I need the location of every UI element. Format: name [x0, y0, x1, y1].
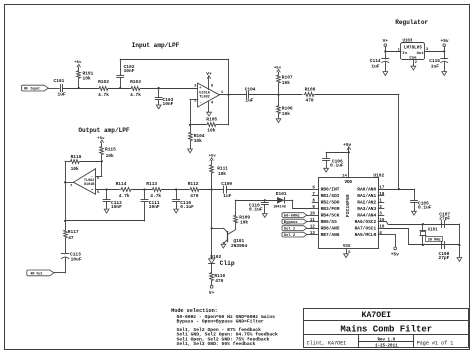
- svg-text:4.7k: 4.7k: [130, 92, 141, 98]
- svg-text:10k: 10k: [282, 80, 290, 86]
- svg-text:-: -: [200, 101, 202, 105]
- svg-text:15: 15: [379, 219, 384, 223]
- svg-text:10nF: 10nF: [124, 68, 135, 74]
- svg-text:LM78L05: LM78L05: [404, 45, 422, 50]
- svg-text:R107: R107: [282, 75, 293, 81]
- svg-text:Page #1 of 1: Page #1 of 1: [417, 341, 454, 347]
- svg-text:C115: C115: [429, 58, 440, 64]
- svg-text:10nF: 10nF: [149, 204, 160, 210]
- svg-text:VSS: VSS: [343, 245, 351, 249]
- svg-text:RB5/SS: RB5/SS: [321, 219, 338, 225]
- svg-text:Rev 1.0: Rev 1.0: [378, 338, 396, 342]
- svg-text:Bypass: Bypass: [284, 221, 298, 225]
- svg-text:1uF: 1uF: [371, 63, 379, 69]
- svg-text:X101: X101: [428, 228, 438, 232]
- svg-text:10k: 10k: [106, 153, 114, 159]
- svg-text:R113: R113: [146, 181, 157, 187]
- svg-text:1N4148: 1N4148: [273, 206, 286, 210]
- svg-text:U101B: U101B: [84, 183, 95, 187]
- svg-text:Mode selection:: Mode selection:: [171, 308, 218, 314]
- svg-text:4.7k: 4.7k: [119, 193, 130, 199]
- svg-text:10k: 10k: [83, 76, 91, 82]
- svg-text:+5v: +5v: [441, 38, 449, 44]
- svg-text:R114: R114: [116, 181, 127, 187]
- svg-text:C104: C104: [245, 86, 256, 92]
- svg-text:Bypass - Open=Bypass GND=Filte: Bypass - Open=Bypass GND=Filter: [177, 319, 264, 325]
- svg-text:PIC16F88: PIC16F88: [345, 194, 351, 217]
- svg-text:U103: U103: [403, 39, 413, 43]
- svg-text:RB0/INT: RB0/INT: [321, 187, 340, 193]
- svg-text:TL082: TL082: [199, 95, 210, 99]
- svg-text:+5v: +5v: [274, 66, 282, 70]
- svg-text:27pF: 27pF: [439, 215, 450, 221]
- svg-text:V+: V+: [209, 290, 215, 296]
- svg-text:+5v: +5v: [97, 137, 105, 141]
- svg-text:1uF: 1uF: [223, 193, 231, 199]
- svg-text:RF Input: RF Input: [24, 87, 40, 91]
- svg-text:Mains Comb Filter: Mains Comb Filter: [340, 325, 432, 335]
- svg-text:10uF: 10uF: [71, 256, 82, 262]
- svg-text:C101: C101: [54, 78, 65, 84]
- svg-text:RB4/SCK: RB4/SCK: [321, 213, 340, 219]
- svg-text:0.1uF: 0.1uF: [249, 207, 263, 213]
- svg-text:RA3/AN3: RA3/AN3: [357, 206, 376, 212]
- svg-text:R103: R103: [130, 79, 141, 85]
- svg-text:RA6/OSC2: RA6/OSC2: [355, 219, 377, 225]
- svg-text:0.1uF: 0.1uF: [180, 204, 194, 210]
- svg-text:RB7/AN6: RB7/AN6: [321, 232, 340, 238]
- svg-text:10k: 10k: [207, 127, 215, 133]
- svg-text:V+: V+: [383, 38, 389, 44]
- svg-text:RA5/MCLR: RA5/MCLR: [355, 232, 377, 238]
- svg-text:+5v: +5v: [391, 252, 399, 258]
- svg-text:R108: R108: [305, 87, 316, 93]
- svg-text:Output amp/LPF: Output amp/LPF: [78, 127, 130, 134]
- svg-text:12: 12: [310, 225, 315, 229]
- svg-text:R101: R101: [83, 70, 94, 76]
- svg-text:470: 470: [306, 98, 314, 104]
- svg-text:10nF: 10nF: [163, 101, 174, 107]
- svg-text:20 MHz: 20 MHz: [428, 238, 441, 242]
- svg-text:RA0/AN0: RA0/AN0: [357, 187, 376, 193]
- svg-text:C109: C109: [221, 181, 232, 187]
- svg-text:Regulator: Regulator: [395, 19, 428, 26]
- svg-text:1uF: 1uF: [431, 63, 439, 69]
- svg-text:Input amp/LPF: Input amp/LPF: [132, 42, 180, 49]
- svg-text:Clip: Clip: [220, 260, 235, 267]
- svg-text:10: 10: [310, 212, 315, 216]
- svg-text:50-60Hz: 50-60Hz: [284, 215, 300, 219]
- svg-text:RB3/PGM: RB3/PGM: [321, 206, 340, 212]
- svg-text:470: 470: [215, 278, 223, 284]
- svg-text:47: 47: [68, 235, 74, 241]
- svg-text:0.1uF: 0.1uF: [418, 205, 432, 211]
- svg-text:R105: R105: [206, 116, 217, 122]
- svg-text:2: 2: [415, 61, 417, 65]
- svg-text:10nF: 10nF: [111, 204, 122, 210]
- svg-text:C114: C114: [370, 58, 381, 64]
- svg-text:VDD: VDD: [345, 181, 353, 185]
- svg-text:RA2/AN2: RA2/AN2: [357, 200, 376, 206]
- svg-text:Sel 2: Sel 2: [284, 233, 296, 238]
- svg-text:In: In: [402, 52, 407, 56]
- svg-text:D101: D101: [276, 191, 287, 197]
- svg-text:R116: R116: [71, 154, 82, 160]
- svg-text:R110: R110: [214, 273, 225, 279]
- svg-text:11: 11: [310, 219, 315, 223]
- svg-text:470: 470: [190, 193, 198, 199]
- svg-text:R117: R117: [68, 229, 79, 235]
- svg-text:10k: 10k: [282, 111, 290, 117]
- svg-text:+: +: [199, 87, 201, 91]
- svg-text:R106: R106: [282, 105, 293, 111]
- svg-text:+: +: [91, 189, 93, 193]
- svg-text:R104: R104: [194, 133, 205, 139]
- svg-text:4.7k: 4.7k: [150, 193, 161, 199]
- svg-text:RF Out: RF Out: [31, 272, 43, 276]
- svg-text:10k: 10k: [71, 166, 79, 172]
- svg-text:14: 14: [342, 175, 347, 179]
- svg-text:Sel 1: Sel 1: [284, 227, 296, 232]
- svg-text:Q101: Q101: [233, 238, 244, 244]
- svg-text:Sel1, Sel2 GND: 50% feedback: Sel1, Sel2 GND: 50% feedback: [177, 341, 256, 347]
- svg-text:+5v: +5v: [343, 142, 351, 148]
- svg-text:Clint, KA7OEI: Clint, KA7OEI: [307, 341, 347, 347]
- svg-text:RA4/AN4: RA4/AN4: [357, 213, 376, 219]
- svg-text:R115: R115: [105, 146, 116, 152]
- svg-text:RA7/OSC1: RA7/OSC1: [355, 226, 377, 232]
- svg-text:10k: 10k: [194, 138, 202, 144]
- svg-text:13: 13: [310, 232, 315, 236]
- svg-text:0.1uF: 0.1uF: [330, 163, 344, 169]
- svg-text:27pF: 27pF: [439, 255, 450, 261]
- svg-text:1uF: 1uF: [58, 92, 66, 98]
- svg-text:1-25-2011: 1-25-2011: [375, 344, 398, 348]
- svg-text:R111: R111: [217, 165, 228, 171]
- svg-text:U102: U102: [373, 173, 384, 179]
- svg-text:RB6/AN5: RB6/AN5: [321, 226, 340, 232]
- svg-text:18: 18: [379, 193, 384, 197]
- svg-text:10k: 10k: [218, 171, 226, 177]
- svg-text:KA7OEI: KA7OEI: [362, 311, 392, 320]
- svg-text:R102: R102: [98, 79, 109, 85]
- svg-text:10k: 10k: [240, 219, 248, 225]
- svg-text:R112: R112: [188, 181, 199, 187]
- svg-text:1uF: 1uF: [245, 98, 253, 104]
- svg-text:RA1/AN1: RA1/AN1: [357, 193, 376, 199]
- svg-text:RB1/SDI: RB1/SDI: [321, 193, 340, 199]
- svg-text:4.7k: 4.7k: [98, 92, 109, 98]
- svg-text:Out: Out: [417, 52, 424, 56]
- svg-text:RB2/SDO: RB2/SDO: [321, 200, 340, 206]
- svg-text:2N3904: 2N3904: [231, 243, 248, 249]
- svg-text:+5v: +5v: [209, 155, 217, 159]
